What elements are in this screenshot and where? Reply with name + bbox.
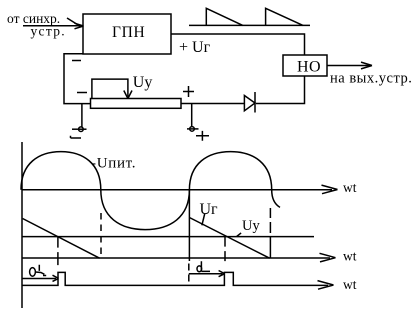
wire: alpha 1 arrow — [22, 278, 56, 280]
wire: wt axis 1 — [22, 189, 332, 191]
node: sawtooth tooth 2 — [266, 8, 303, 25]
op-amp U2: block НО — [283, 55, 327, 76]
svg-text:-Uпит.: -Uпит. — [91, 155, 136, 171]
svg-text:+ Uг: + Uг — [179, 39, 211, 56]
wire arrow into GPN input — [23, 25, 82, 27]
wire to negative terminal — [81, 104, 83, 127]
wire: wt axis 2 — [22, 257, 330, 259]
wire: Uy level line — [22, 236, 314, 238]
node label: minus near ГПН — [72, 60, 81, 62]
node: sawtooth ramp 1 — [23, 219, 100, 259]
wire: alpha 2 arrow — [189, 273, 223, 275]
node: pulse waveform (wt axis 3) — [22, 272, 328, 285]
node label: alpha 2 — [197, 266, 202, 272]
node: text "от синхр. устр." — [7, 11, 66, 38]
svg-text:wt: wt — [343, 248, 357, 263]
svg-text:Uy: Uy — [242, 218, 260, 234]
node label: minus at left of resistor — [77, 92, 87, 94]
node label: plus at right of resistor — [183, 86, 194, 97]
svg-text:НО: НО — [297, 58, 321, 75]
node label: alpha 1 — [30, 268, 36, 277]
svg-text:Uy: Uy — [133, 74, 153, 91]
node: solid marker / sawtooth rising edge at second crossing — [188, 190, 190, 261]
resistor R1: potentiometer body — [91, 99, 182, 109]
node: dashed marker at third sine crossing — [269, 208, 271, 258]
wire to positive terminal — [191, 104, 193, 127]
node: dashed marker below axis2 at x=189 — [188, 264, 190, 287]
node: dashed marker at first sine zero crossing — [100, 213, 102, 258]
wire: output arrow from НО — [327, 65, 370, 67]
node: dashed marker at Uy crossing 1 — [57, 237, 59, 266]
node: sine waveform of supply voltage — [21, 152, 280, 230]
node: positive terminal circle — [190, 127, 195, 132]
svg-text:wt: wt — [343, 277, 357, 292]
node: negative terminal circle — [79, 127, 84, 132]
svg-text:wt: wt — [343, 180, 357, 195]
wire: vertical axis of plots — [21, 142, 23, 308]
svg-text:ГПН: ГПН — [112, 24, 145, 41]
wire: feedback from ГПН bottom-left — [64, 54, 91, 104]
node label: minus below terminal — [71, 136, 82, 138]
node: dashed marker at Uy crossing 2 — [224, 237, 226, 262]
op-amp U1: block ГПН (sawtooth generator) — [83, 14, 171, 54]
node: sawtooth tooth 1 — [206, 8, 243, 25]
wire: wiper tap — [92, 79, 128, 98]
diode D1 — [254, 92, 256, 113]
node label: plus at terminal — [196, 131, 209, 141]
wire from diode anode to potentiometer — [181, 103, 244, 105]
svg-text:на вых.устр.: на вых.устр. — [330, 70, 412, 86]
wire: Uг output from ГПН to НО — [171, 34, 305, 55]
node: sawtooth waveform symbol baseline — [189, 24, 310, 26]
node: sawtooth ramp 2 — [189, 218, 269, 259]
wire: НО bottom output down and left — [256, 76, 305, 104]
svg-text:Uг: Uг — [200, 201, 219, 218]
